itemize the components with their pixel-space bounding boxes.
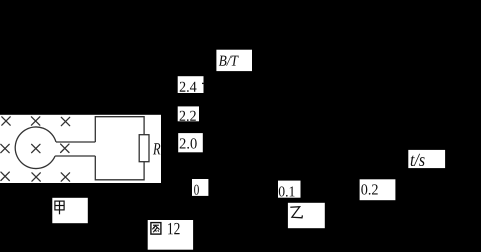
character 乙 (drawn) [290,207,302,218]
value 2.4 [180,82,197,92]
field cross row1 col3 [61,117,69,125]
magnetic field region (white panel, figure 甲) [0,115,161,183]
axis label t/s [411,154,425,166]
value 2.0 [180,138,197,148]
wire bottom lead [55,155,95,157]
label box 2.0 [178,133,203,152]
value 0.2 [361,184,377,194]
label box 0.2 [360,179,396,200]
label box 2.4 [178,76,204,93]
field cross row1 col1 [2,117,10,125]
field cross row3 col1 [1,172,9,180]
character 图 (drawn) [151,223,161,235]
character 甲 (drawn) [55,201,64,214]
field cross row1 col2 [31,117,39,125]
value 0 [194,185,199,195]
field cross row3 col3 [61,173,69,181]
caption number 12 [168,223,180,234]
field cross row2 col3 [61,144,69,152]
resistor label R [153,143,161,154]
wire top lead [56,141,95,143]
label box 2.2 [178,106,199,121]
label box 图 12 [148,220,193,250]
circuit loop wires [95,117,144,180]
label box B/T [216,50,252,71]
label box t/s [408,150,445,168]
field cross row2 col1 [1,144,9,152]
field cross row2 col2 (inside coil) [32,144,40,152]
label box 乙 [288,203,325,228]
resistor R (box) [139,135,149,162]
label box 0 (origin) [192,179,208,196]
value 0.1 [279,186,295,196]
label box 0.1 [278,181,301,198]
label box 甲 [52,198,88,223]
tick at 2.4 [202,82,204,84]
coil (circular loop with gap at right) [15,127,56,169]
field cross row3 col2 [32,173,40,181]
axis label B/T [219,56,239,66]
